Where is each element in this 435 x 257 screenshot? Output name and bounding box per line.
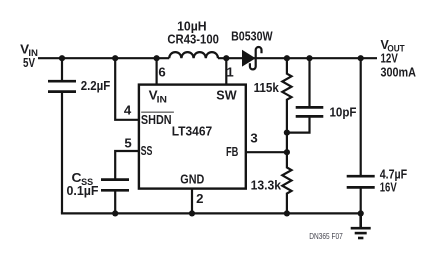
ground <box>351 213 371 238</box>
node bottom rail at 13.3k <box>284 210 290 216</box>
wire GND pin2 <box>191 189 193 214</box>
node VIN rail at pin6 <box>154 55 160 61</box>
svg-text:IN: IN <box>157 95 167 106</box>
svg-text:115k: 115k <box>254 80 280 95</box>
node VIN rail at SHDN branch <box>112 55 118 61</box>
svg-text:12V: 12V <box>381 51 398 66</box>
node FB junction <box>284 149 290 155</box>
schottky diode B0530W bar <box>250 47 262 69</box>
svg-text:LT3467: LT3467 <box>172 124 213 139</box>
SHDN overline <box>141 111 174 113</box>
svg-text:DN365 F07: DN365 F07 <box>309 232 343 241</box>
schottky diode B0530W triangle <box>242 50 256 67</box>
inductor 10µH CR43-100 <box>169 52 218 58</box>
op-amp U1 LT3467 box <box>139 85 246 189</box>
node VOUT at 10pF <box>306 55 312 61</box>
svg-text:5V: 5V <box>23 55 35 70</box>
svg-text:300mA: 300mA <box>381 65 417 80</box>
wire SS pin5 net <box>115 151 139 180</box>
capacitor 2.2µF <box>48 81 76 91</box>
wire FB pin3 <box>246 151 287 153</box>
svg-text:1: 1 <box>226 64 233 79</box>
wire bottom rail <box>61 212 361 214</box>
svg-text:SW: SW <box>216 87 237 102</box>
resistor 115k <box>282 74 291 100</box>
wire output cap to bottom rail <box>360 187 362 213</box>
wire 10pF bottom to 115k node <box>287 116 310 132</box>
node SW at pin1 <box>223 55 229 61</box>
svg-text:2.2µF: 2.2µF <box>81 78 111 93</box>
wire top rail right segment inductor to VOUT <box>218 57 377 59</box>
svg-text:5: 5 <box>124 136 131 151</box>
wire 13.3k bottom <box>286 193 288 214</box>
node bottom rail at GND pin <box>189 210 195 216</box>
wire SHDN net <box>115 58 139 120</box>
wire pin1 SW <box>225 58 227 84</box>
svg-text:3: 3 <box>250 131 257 146</box>
node VOUT at 115k <box>284 55 290 61</box>
svg-text:CR43-100: CR43-100 <box>167 32 219 47</box>
node bottom rail at output cap ground <box>358 210 364 216</box>
svg-text:GND: GND <box>180 172 204 187</box>
wire 115k top <box>286 58 288 74</box>
wire 115k to 13.3k through nodes <box>286 99 288 168</box>
node VIN rail at input cap <box>59 55 65 61</box>
resistor 13.3k <box>282 168 291 194</box>
svg-text:13.3k: 13.3k <box>251 177 282 192</box>
svg-text:SHDN: SHDN <box>141 112 172 127</box>
node 115k-10pF junction <box>284 130 290 136</box>
wire input cap to bottom rail <box>61 92 63 214</box>
svg-text:16V: 16V <box>380 180 397 195</box>
svg-text:6: 6 <box>158 64 165 79</box>
svg-text:4: 4 <box>124 102 132 117</box>
wire CSS to bottom rail <box>114 190 116 213</box>
svg-text:0.1µF: 0.1µF <box>67 183 99 198</box>
capacitor 10pF <box>296 107 324 116</box>
node bottom rail at CSS <box>112 210 118 216</box>
node VOUT at output cap <box>358 55 364 61</box>
svg-text:10pF: 10pF <box>330 105 357 120</box>
svg-text:SS: SS <box>141 143 153 158</box>
wire top rail left segment VIN to inductor <box>38 57 169 59</box>
wire input cap branch <box>61 58 63 81</box>
svg-text:2: 2 <box>196 191 203 206</box>
capacitor CSS 0.1µF <box>101 180 129 191</box>
wire output branch <box>360 58 362 176</box>
capacitor 4.7µF 16V <box>347 176 375 187</box>
wire 10pF top <box>308 58 310 107</box>
svg-text:B0530W: B0530W <box>231 29 273 44</box>
wire pin6 VIN <box>156 58 158 84</box>
svg-text:FB: FB <box>226 144 238 159</box>
